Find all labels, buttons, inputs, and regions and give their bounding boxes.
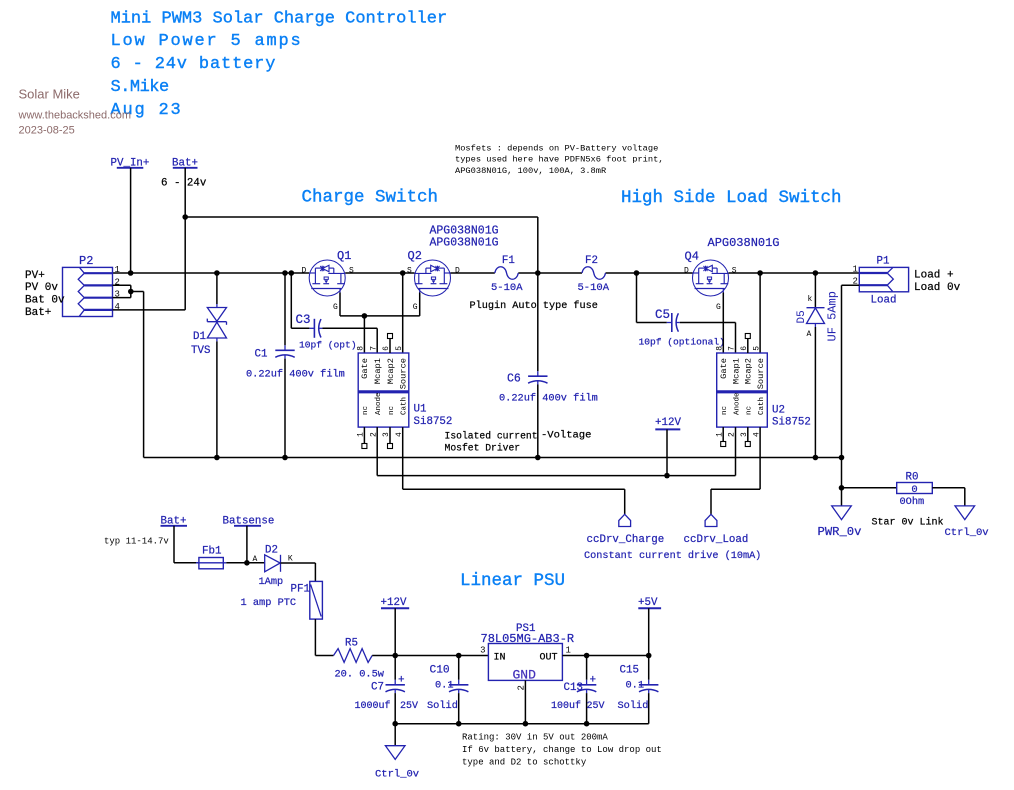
wire ccDrv_Load: [711, 488, 760, 490]
node D1 rail junction: [214, 270, 220, 276]
node +5V junction: [646, 653, 652, 659]
svg-text:D1: D1: [193, 331, 206, 343]
wire Batsense: [246, 526, 248, 563]
wire U2 source stub: [759, 273, 761, 353]
svg-text:nc: nc: [388, 406, 396, 415]
svg-text:0.22uf 400v film: 0.22uf 400v film: [246, 368, 345, 380]
svg-text:Plugin Auto type fuse: Plugin Auto type fuse: [470, 300, 598, 312]
svg-text:-Voltage: -Voltage: [541, 430, 591, 442]
node R0 junction: [839, 485, 845, 491]
svg-text:www.thebackshed.com: www.thebackshed.com: [18, 110, 132, 122]
svg-text:typ 11-14.7v: typ 11-14.7v: [104, 537, 169, 547]
wire C3 to Mcap1: [322, 327, 377, 329]
wire C3 branch: [290, 273, 292, 328]
transistor Q2: [415, 260, 451, 296]
svg-text:GND: GND: [513, 668, 537, 683]
svg-text:Source: Source: [756, 358, 766, 389]
wire ccDrv_Charge: [403, 488, 625, 490]
svg-text:P2: P2: [79, 254, 93, 268]
svg-text:Si8752: Si8752: [772, 417, 811, 429]
svg-text:Anode: Anode: [375, 392, 383, 415]
svg-text:Isolated current: Isolated current: [445, 431, 538, 442]
wire pin23 to bus: [131, 291, 144, 293]
svg-text:0Ohm: 0Ohm: [900, 496, 925, 508]
ferrite bead Fb1: [199, 558, 223, 569]
ic U2 Si8752: [717, 353, 768, 427]
svg-text:Mcap2: Mcap2: [386, 358, 396, 384]
bus1 junctions: [214, 455, 220, 461]
svg-text:R5: R5: [345, 638, 358, 650]
svg-text:type and D2 to schottky: type and D2 to schottky: [462, 757, 587, 767]
node gate bus junction: [362, 313, 368, 319]
wire U1 source stub: [402, 273, 404, 353]
svg-text:If 6v battery, change to Low d: If 6v battery, change to Low drop out: [462, 745, 662, 755]
svg-text:Mosfets : depends on PV-Batter: Mosfets : depends on PV-Battery voltage: [455, 144, 658, 154]
wire rail A seg6: [729, 272, 860, 274]
svg-text:Bat 0v: Bat 0v: [25, 295, 65, 307]
svg-text:1: 1: [566, 646, 571, 656]
svg-text:Ctrl_0v: Ctrl_0v: [945, 527, 989, 539]
svg-text:Anode: Anode: [733, 392, 741, 415]
node +12V bus junction: [664, 473, 670, 479]
wire R0 to gnd: [964, 488, 966, 506]
wire to Ctrl_0v: [394, 724, 396, 746]
wire Q2 gate: [419, 293, 421, 316]
svg-text:S.Mike: S.Mike: [111, 78, 170, 97]
svg-text:D2: D2: [265, 545, 278, 557]
svg-text:C1: C1: [255, 349, 268, 361]
svg-text:types used here have PDFN5x6 f: types used here have PDFN5x6 foot print,: [455, 155, 664, 165]
U2 pin3 stub: [747, 427, 749, 441]
svg-text:78L05MG-AB3-R: 78L05MG-AB3-R: [481, 632, 575, 646]
svg-text:10pf (optional): 10pf (optional): [639, 337, 725, 348]
svg-text:8: 8: [715, 346, 724, 351]
svg-text:Bat+: Bat+: [25, 307, 51, 319]
capacitor C1: [284, 345, 286, 350]
ground Ctrl_0v right: [955, 506, 975, 520]
U1 pin2 wire: [376, 427, 378, 476]
svg-text:D: D: [684, 267, 689, 276]
capacitor C7: [394, 656, 396, 680]
diode D1 TVS: [216, 304, 218, 308]
svg-text:S: S: [349, 267, 354, 276]
wire rail A seg1: [113, 272, 310, 274]
svg-text:Si8752: Si8752: [414, 416, 453, 428]
wire Fb1 to D2: [226, 562, 264, 564]
svg-text:D5: D5: [796, 310, 808, 323]
svg-text:7: 7: [728, 346, 737, 351]
wire PV_In+ down: [130, 168, 132, 273]
svg-text:G: G: [716, 303, 721, 312]
ic PS1 78L05: [488, 644, 562, 681]
U2 pin2 wire: [735, 427, 737, 476]
svg-text:Mini PWM3 Solar Charge Control: Mini PWM3 Solar Charge Controller: [111, 10, 448, 29]
svg-text:Q1: Q1: [337, 249, 351, 263]
svg-text:Mcap1: Mcap1: [731, 358, 741, 384]
resistor R0: [842, 487, 897, 489]
wire D1 top: [216, 273, 218, 304]
svg-text:2023-08-25: 2023-08-25: [19, 125, 75, 137]
svg-text:P1: P1: [877, 256, 890, 268]
node C5 junction: [634, 270, 640, 276]
svg-text:100uf: 100uf: [551, 700, 581, 712]
svg-text:+: +: [398, 675, 405, 687]
svg-text:TVS: TVS: [191, 345, 210, 357]
capacitor C15: [648, 656, 650, 680]
svg-text:5-10A: 5-10A: [578, 282, 610, 294]
svg-text:ccDrv_Load: ccDrv_Load: [684, 534, 749, 546]
svg-text:6 - 24v battery: 6 - 24v battery: [111, 55, 277, 74]
svg-text:D: D: [455, 267, 460, 276]
wire D2 to PF1: [281, 562, 316, 564]
wire U1 pin8 stub: [363, 316, 365, 353]
wire Q4 gate to U2: [722, 293, 724, 354]
svg-text:PWR_0v: PWR_0v: [818, 525, 862, 539]
svg-text:1: 1: [853, 265, 858, 275]
svg-text:Load: Load: [871, 295, 897, 307]
svg-text:K: K: [288, 555, 293, 564]
wire P1 pin2: [842, 284, 860, 286]
node C3 rail junction: [289, 270, 295, 276]
svg-text:PV+: PV+: [25, 270, 45, 282]
svg-text:7: 7: [369, 346, 378, 351]
svg-text:IN: IN: [494, 653, 506, 664]
svg-text:Charge Switch: Charge Switch: [302, 188, 439, 208]
svg-text:U2: U2: [772, 405, 785, 417]
node F2 junction: [535, 270, 541, 276]
svg-text:+12V: +12V: [655, 417, 681, 429]
node Batsense junction: [244, 560, 250, 566]
svg-text:Gate: Gate: [719, 358, 729, 379]
svg-text:5-10A: 5-10A: [491, 282, 523, 294]
node Q1S-Q2S junction: [400, 270, 406, 276]
wire rail A seg2: [345, 272, 414, 274]
svg-text:S: S: [407, 267, 412, 276]
svg-text:Mcap1: Mcap1: [373, 358, 383, 384]
svg-text:Solid: Solid: [618, 700, 649, 712]
wire PF1 to R5: [314, 619, 316, 655]
svg-text:nc: nc: [721, 406, 729, 415]
capacitor C6: [537, 371, 539, 376]
svg-text:Constant current drive (10mA): Constant current drive (10mA): [584, 550, 761, 562]
node P2 pin23 junction: [128, 289, 134, 295]
diode D5: [807, 307, 825, 309]
wire rail A seg5: [606, 272, 693, 274]
connector P2: [63, 267, 113, 316]
wire P2 pin2-3 link: [113, 284, 131, 286]
wire R5 to PS1: [372, 655, 488, 657]
wire Bat+ psu: [173, 526, 175, 563]
diode D2: [265, 555, 281, 572]
node PV_In junction: [128, 270, 134, 276]
U1 pin4 wire: [402, 427, 404, 489]
svg-text:Q2: Q2: [408, 249, 422, 263]
resistor R5: [334, 649, 373, 663]
ground PWR_0v: [832, 506, 852, 520]
svg-text:F1: F1: [502, 255, 515, 267]
svg-text:1Amp: 1Amp: [259, 576, 284, 588]
wire C5 branch: [636, 273, 638, 323]
capacitor C13: [586, 656, 588, 680]
psu bus junctions: [392, 721, 398, 727]
wire P1pin2 to R0: [841, 458, 843, 506]
svg-text:Gate: Gate: [360, 358, 370, 379]
wire D1 bottom: [216, 341, 218, 457]
svg-text:C10: C10: [430, 665, 450, 677]
svg-text:C15: C15: [620, 665, 639, 677]
svg-text:Fb1: Fb1: [202, 546, 221, 558]
svg-text:APG038N01G: APG038N01G: [430, 237, 499, 250]
U2 pin6 stub: [747, 339, 749, 354]
svg-text:R0: R0: [906, 472, 919, 484]
svg-text:nc: nc: [746, 406, 754, 415]
wire bus -voltage: [144, 457, 842, 459]
wire C1 top: [284, 273, 286, 345]
svg-text:C6: C6: [507, 373, 521, 386]
transistor Q4: [693, 260, 729, 296]
svg-text:ccDrv_Charge: ccDrv_Charge: [587, 534, 665, 546]
svg-text:8: 8: [357, 346, 366, 351]
node C1 rail junction: [282, 270, 288, 276]
fuse F1: [495, 267, 519, 279]
wire D5 bottom: [814, 327, 816, 458]
svg-text:25V: 25V: [587, 701, 605, 712]
wire rail B: [185, 216, 538, 218]
wire PS1 gnd: [524, 680, 526, 723]
svg-text:Mosfet Driver: Mosfet Driver: [445, 443, 521, 454]
U2 pin1 stub: [722, 427, 724, 441]
wire rail A seg3: [451, 272, 495, 274]
wire C1 bottom: [284, 359, 286, 458]
svg-text:APG038N01G: APG038N01G: [708, 236, 780, 250]
svg-text:Cath: Cath: [401, 397, 409, 415]
svg-text:G: G: [333, 303, 338, 312]
svg-text:0.1: 0.1: [435, 680, 454, 692]
U1 pin6 stub: [389, 339, 391, 354]
wire Bat+ down: [184, 168, 186, 310]
svg-text:Solar Mike: Solar Mike: [19, 87, 80, 102]
wire PS1 out: [562, 655, 648, 657]
wire gate bus: [340, 315, 420, 317]
wire D5 top: [814, 273, 816, 308]
svg-text:Mcap2: Mcap2: [744, 358, 754, 384]
svg-text:25V: 25V: [400, 701, 418, 712]
capacitor C10: [458, 656, 460, 680]
svg-text:PV 0v: PV 0v: [25, 282, 58, 294]
svg-text:nc: nc: [362, 406, 370, 415]
svg-text:Cath: Cath: [758, 397, 766, 415]
node Bat+ rail B junction: [182, 214, 188, 220]
wire Q1 gate: [339, 293, 341, 316]
U1 pin3 stub: [389, 427, 391, 443]
wire rail A seg4: [518, 272, 582, 274]
svg-text:C5: C5: [655, 308, 670, 322]
svg-text:6 - 24v: 6 - 24v: [161, 178, 207, 190]
svg-text:High Side Load Switch: High Side Load Switch: [621, 188, 842, 208]
svg-text:1: 1: [115, 265, 120, 275]
svg-text:Star 0v Link: Star 0v Link: [872, 517, 944, 529]
connector P1: [859, 267, 908, 291]
wire C6 bottom: [537, 385, 539, 458]
svg-text:10pf (opt): 10pf (opt): [299, 340, 357, 351]
svg-text:C13: C13: [564, 682, 583, 694]
capacitor C3: [309, 327, 314, 329]
svg-text:5: 5: [395, 346, 404, 351]
svg-text:0: 0: [911, 484, 917, 496]
fuse F2: [582, 267, 606, 279]
svg-text:Ctrl_0v: Ctrl_0v: [375, 769, 419, 781]
flag ccDrv_Charge: [619, 514, 631, 526]
svg-text:+: +: [590, 675, 597, 687]
svg-text:1000uf: 1000uf: [355, 700, 391, 712]
svg-text:Rating: 30V in 5V out 200mA: Rating: 30V in 5V out 200mA: [462, 733, 608, 743]
svg-text:k: k: [808, 295, 813, 304]
U1 pin1 stub: [363, 427, 365, 443]
ptc PF1: [310, 581, 323, 619]
svg-text:0.22uf 400v film: 0.22uf 400v film: [499, 393, 598, 405]
svg-text:5: 5: [752, 346, 761, 351]
transistor Q1: [309, 260, 345, 296]
svg-text:A: A: [807, 330, 812, 339]
svg-text:Load +: Load +: [914, 270, 954, 282]
svg-text:S: S: [732, 267, 737, 276]
svg-text:Load 0v: Load 0v: [914, 282, 961, 294]
node C13 junction: [584, 653, 590, 659]
svg-text:PF1: PF1: [291, 584, 310, 596]
flag ccDrv_Load: [705, 514, 717, 526]
U2 pin4 wire: [759, 427, 761, 489]
svg-text:Linear PSU: Linear PSU: [460, 571, 565, 591]
svg-text:Low Power 5 amps: Low Power 5 amps: [111, 32, 303, 51]
wire C6 top: [537, 273, 539, 371]
svg-text:Source: Source: [399, 358, 409, 389]
wire P2 pin4 to Bat+: [113, 309, 186, 311]
svg-text:APG038N01G, 100v, 100A, 3.8mR: APG038N01G, 100v, 100A, 3.8mR: [455, 166, 606, 176]
svg-text:OUT: OUT: [540, 653, 558, 664]
node C10 junction: [456, 653, 462, 659]
node +12V psu junction: [392, 653, 398, 659]
node U2 source junction: [757, 270, 763, 276]
wire psu bottom bus: [395, 723, 649, 725]
capacitor C5: [667, 322, 672, 324]
svg-text:Solid: Solid: [427, 700, 458, 712]
svg-text:C7: C7: [371, 682, 384, 694]
svg-text:0.1: 0.1: [626, 680, 645, 692]
svg-text:G: G: [413, 303, 418, 312]
svg-text:U1: U1: [414, 404, 427, 416]
svg-text:C3: C3: [296, 313, 311, 327]
ic U1 Si8752: [358, 353, 409, 427]
wire +12V bus: [377, 475, 735, 477]
node D5 junction: [813, 270, 819, 276]
svg-text:Q4: Q4: [685, 250, 699, 264]
wire C5 to Mcap1: [680, 322, 736, 324]
svg-text:F2: F2: [585, 255, 598, 267]
ground Ctrl_0v psu: [385, 746, 405, 760]
svg-text:UF 5Amp: UF 5Amp: [826, 291, 840, 341]
svg-text:A: A: [253, 555, 258, 564]
svg-text:1 amp PTC: 1 amp PTC: [241, 597, 297, 609]
svg-text:3: 3: [480, 646, 485, 656]
svg-text:20. 0.5w: 20. 0.5w: [335, 669, 385, 681]
svg-text:D: D: [302, 267, 307, 276]
